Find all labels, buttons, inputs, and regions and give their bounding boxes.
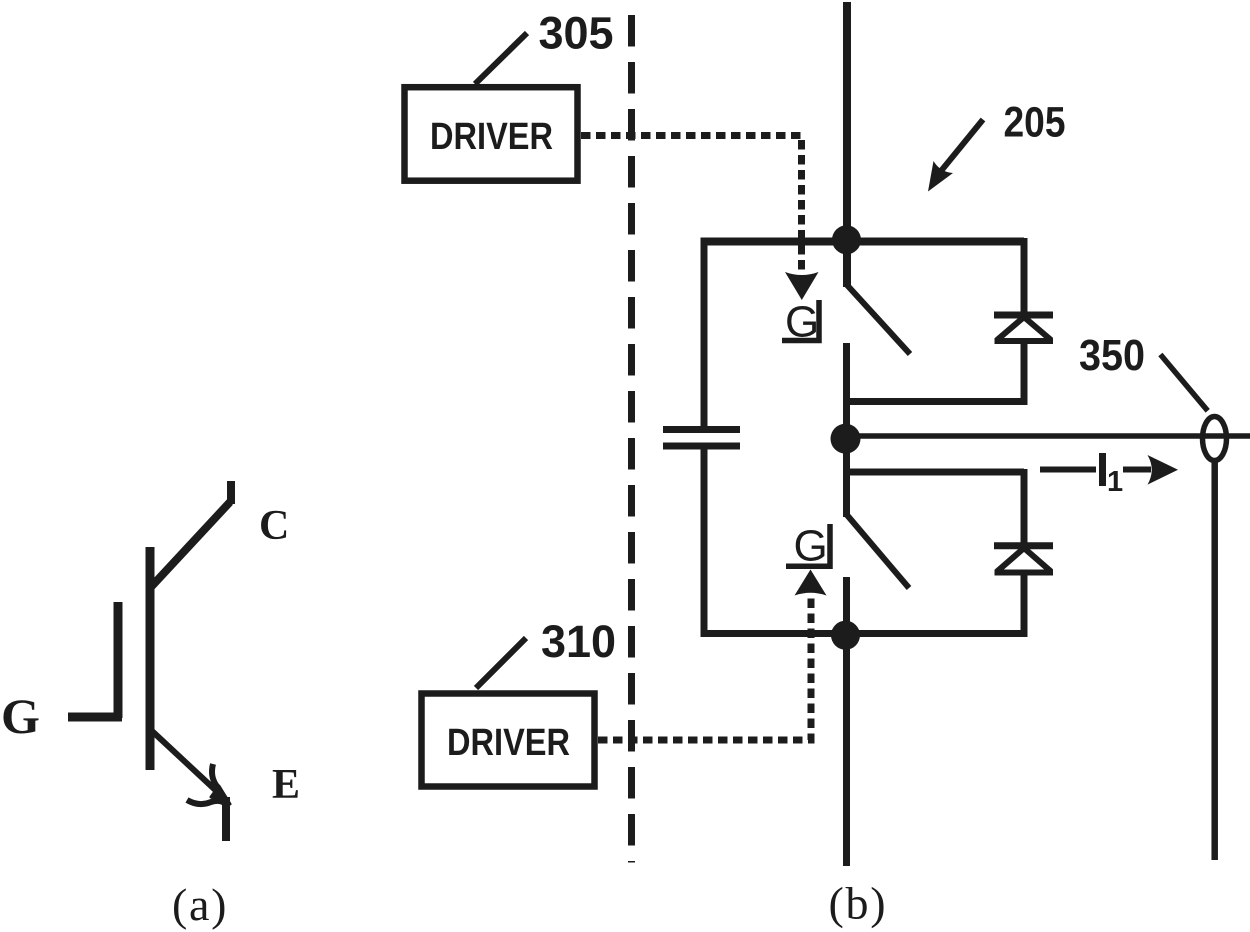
wire lower top rail xyxy=(847,469,1024,476)
diode D1 bottom lead xyxy=(1021,341,1028,405)
wire upper bottom rail xyxy=(846,398,1024,405)
diode D1 triangle xyxy=(995,317,1054,341)
wire lower bus segment xyxy=(843,577,850,866)
junction node (top) xyxy=(832,225,861,254)
capacitor C1 top lead xyxy=(701,238,708,429)
wire middle bus segment (upper switch lower terminal to lower blade) xyxy=(843,343,850,517)
wire collector stub of Q1 xyxy=(227,481,235,504)
current sensor ellipse 350 xyxy=(1203,417,1227,461)
svg-text:DRIVER: DRIVER xyxy=(447,722,570,764)
wire collector diagonal of Q1 xyxy=(151,502,230,587)
leader line for 350 xyxy=(1160,355,1207,411)
switch S1 blade (upper) xyxy=(847,285,910,354)
svg-text:G: G xyxy=(794,522,828,571)
dotted gate drive line from driver 305 xyxy=(581,136,819,301)
wire load branch below sensor xyxy=(1211,462,1218,860)
junction node (output) xyxy=(831,424,861,454)
svg-text:305: 305 xyxy=(539,8,614,59)
transistor Q1 gate bar xyxy=(114,602,123,718)
leader line to label 305 xyxy=(475,33,527,84)
diode D2 triangle xyxy=(995,548,1054,573)
wire emitter diagonal of Q1 with arrow xyxy=(152,731,230,804)
capacitor C1 plates xyxy=(663,430,740,447)
wire top rail (node to diode D1 top) xyxy=(701,238,1025,246)
wire DC bus top segment xyxy=(843,2,851,287)
svg-text:G: G xyxy=(1,688,40,744)
wire gate lead of Q1 xyxy=(68,713,122,722)
svg-text:E: E xyxy=(272,762,300,808)
svg-text:C: C xyxy=(259,503,289,549)
gate node label G (lower switch) xyxy=(786,522,830,571)
svg-text:350: 350 xyxy=(1079,332,1145,380)
svg-text:(b): (b) xyxy=(829,878,888,929)
diode D2 (lower) top lead xyxy=(1021,469,1028,546)
current label I1 with arrow xyxy=(1040,453,1178,498)
capacitor C1 bottom lead xyxy=(701,446,708,637)
switch S2 blade (lower) xyxy=(847,515,909,588)
diode D2 cathode bar xyxy=(994,542,1053,549)
junction node (bottom) xyxy=(831,621,860,650)
gate node label G (upper switch) xyxy=(782,298,819,347)
svg-text:(a): (a) xyxy=(172,879,228,930)
wire emitter stub of Q1 xyxy=(222,797,230,841)
leader arrow for 205 xyxy=(928,120,983,192)
dotted gate drive line from driver 310 xyxy=(598,570,827,741)
svg-text:1: 1 xyxy=(1107,466,1123,498)
diode D1 (upper) top lead xyxy=(1021,238,1028,316)
boundary dashed line xyxy=(628,15,635,863)
driver box 310 xyxy=(422,694,595,787)
diode D2 bottom lead xyxy=(1021,572,1028,637)
wire output line xyxy=(846,433,1250,439)
wire lower bottom rail (capacitor to diode D2 bottom) xyxy=(701,630,1025,637)
transistor Q1 (IGBT symbol, part a) body bar xyxy=(146,547,155,770)
svg-text:310: 310 xyxy=(541,616,616,667)
leader line to label 310 xyxy=(476,638,526,688)
svg-text:DRIVER: DRIVER xyxy=(430,116,553,158)
svg-text:205: 205 xyxy=(1004,100,1066,147)
diode D1 cathode bar xyxy=(994,312,1053,319)
driver box 305 xyxy=(405,87,578,181)
